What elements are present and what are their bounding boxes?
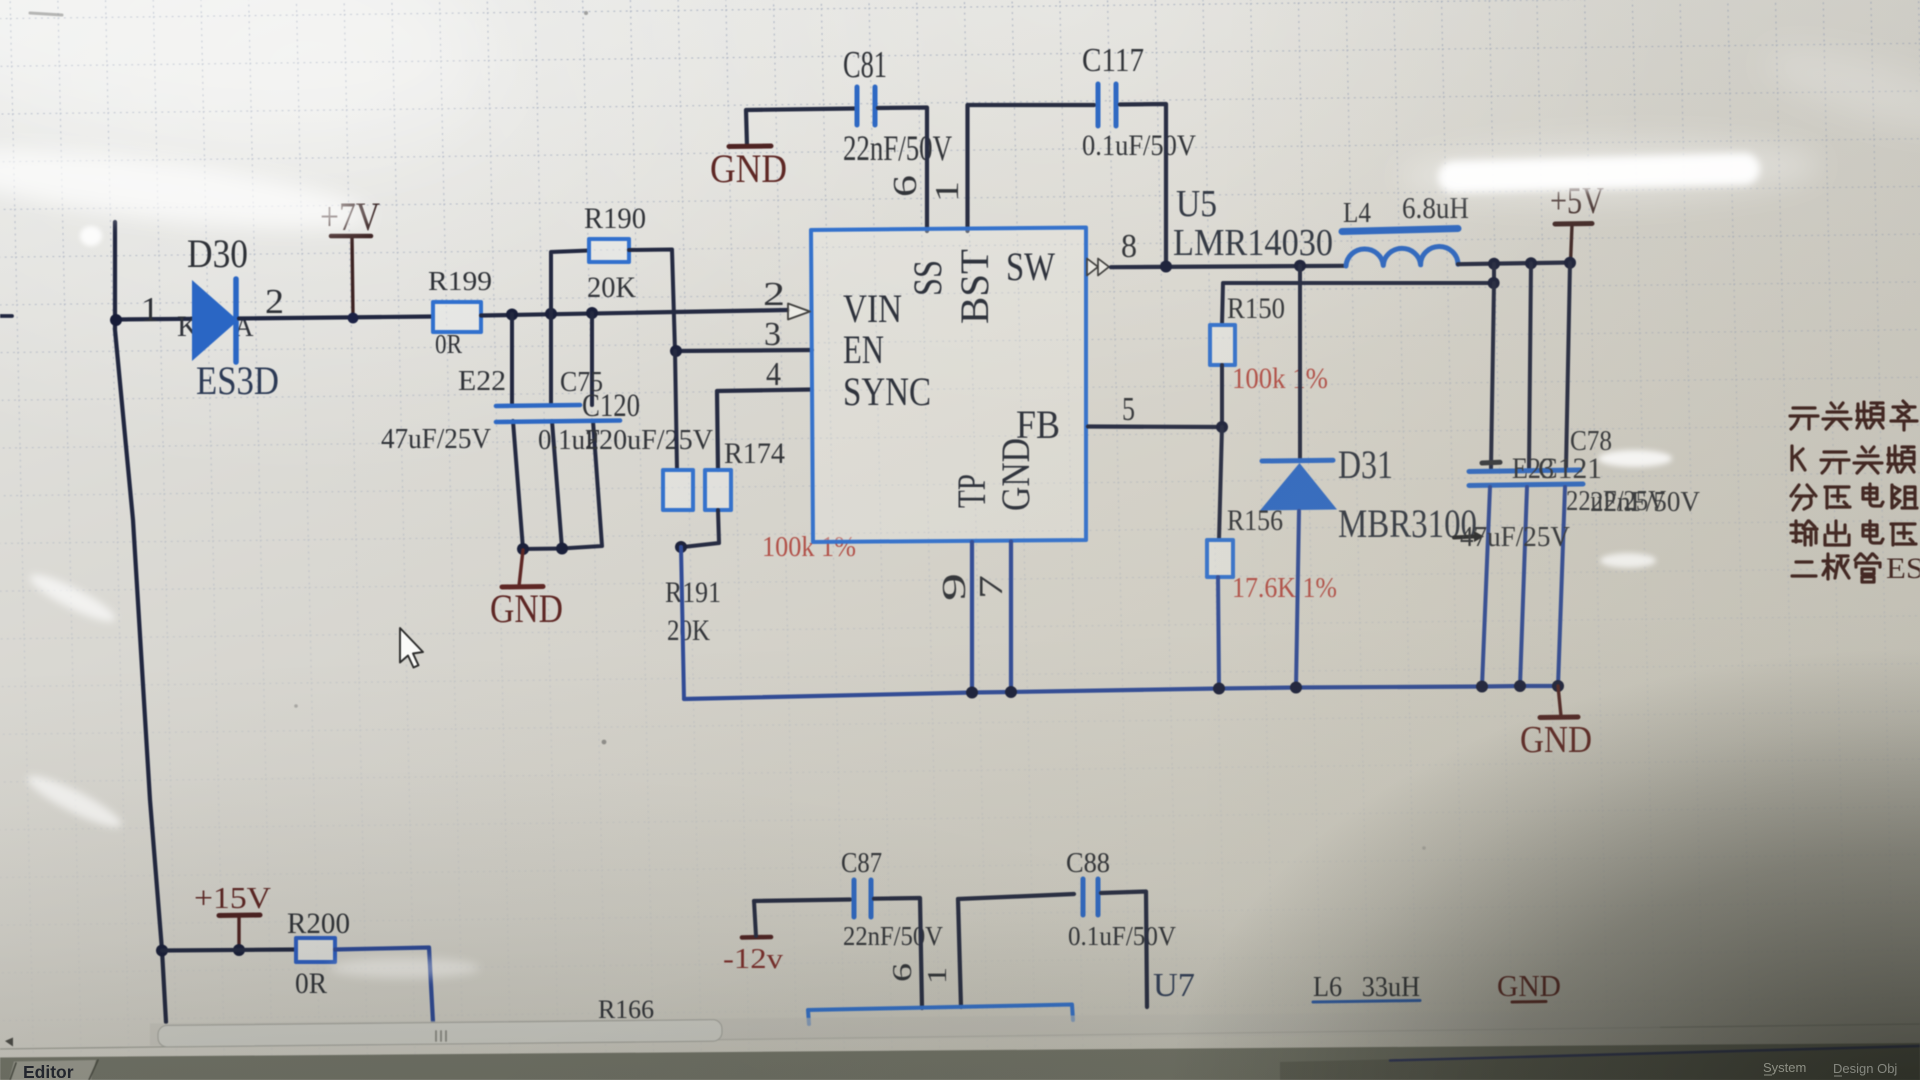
glare bottom-left streak1 bbox=[26, 568, 120, 629]
pin SW chevrons bbox=[1087, 259, 1109, 276]
ground GND bottom right bbox=[1540, 686, 1578, 718]
node D31 rail bbox=[1290, 682, 1302, 694]
wire R190 right to EN node bbox=[629, 250, 675, 352]
svg-text:System: System bbox=[1763, 1060, 1806, 1075]
wire E22 lower lead bbox=[513, 421, 523, 549]
glare bottom-left streak2 bbox=[23, 768, 126, 834]
node E23 tap bbox=[1488, 258, 1500, 270]
node R150 feed corner bbox=[1488, 277, 1500, 289]
wire SYNC pin4 bbox=[717, 390, 812, 471]
wire E23 lower lead bbox=[1482, 487, 1490, 687]
wire -12v to C87 bbox=[754, 900, 850, 902]
tab editor slants bbox=[10, 1060, 98, 1080]
wire E23 upper lead bbox=[1491, 283, 1494, 468]
glare mid-right blob2 bbox=[1600, 553, 1656, 568]
wire EN pin3 bbox=[675, 350, 812, 351]
node C120 tap bbox=[586, 307, 598, 319]
wire C81 left with ground bbox=[746, 109, 854, 147]
capacitor C87 bbox=[854, 880, 871, 917]
wire E22 upper lead bbox=[510, 314, 514, 405]
node gnd rail left bbox=[517, 543, 529, 555]
wire R200 to R166 bbox=[335, 948, 433, 1023]
wire C120 upper lead bbox=[590, 313, 594, 405]
wire C121 lower lead bbox=[1520, 487, 1527, 686]
wire R150 top feed bbox=[1222, 264, 1494, 325]
wire C75 lower lead bbox=[552, 421, 562, 549]
op-amp U1 ic U5 body bbox=[811, 228, 1086, 543]
inductor L4 bbox=[1342, 229, 1458, 267]
note chinese annotation column bbox=[1790, 401, 1920, 585]
node +15V rail corner bbox=[156, 945, 168, 957]
node C78 +5V tap bbox=[1564, 257, 1576, 269]
wire SW output bbox=[1111, 266, 1346, 267]
node C75 tap bbox=[545, 308, 557, 320]
node pin9 rail bbox=[966, 687, 978, 699]
ground GND top bbox=[729, 144, 771, 150]
resistor R199 bbox=[433, 302, 481, 332]
power +15V bbox=[219, 915, 260, 950]
pin VIN arrow bbox=[788, 304, 810, 320]
scrollbar left arrow bbox=[5, 1038, 13, 1047]
capacitor E22 plates bbox=[496, 405, 620, 422]
cursor mouse arrow bbox=[400, 628, 423, 668]
resistor R200 bbox=[296, 938, 335, 962]
node gnd rail mid bbox=[556, 543, 568, 555]
wire C75 upper lead bbox=[549, 314, 553, 405]
node E22 tap bbox=[506, 309, 518, 321]
wire U7 pin1 to C88 bbox=[958, 894, 1074, 1007]
wire R156 to rail bbox=[1218, 577, 1219, 689]
tab editor body bbox=[9, 1060, 96, 1080]
node SW C117 bbox=[1160, 261, 1172, 273]
wire C78 upper lead bbox=[1566, 263, 1570, 468]
capacitor C117 bbox=[1098, 84, 1116, 126]
ground GND left bbox=[502, 550, 543, 587]
node R156 rail bbox=[1213, 683, 1225, 695]
power +5V bbox=[1555, 224, 1592, 264]
ground GND bottom mid bar bbox=[1512, 1000, 1546, 1004]
wire R190 branch bbox=[551, 251, 589, 314]
wire R199 to VIN pin2 arrow bbox=[481, 310, 788, 316]
node pin7 rail bbox=[1005, 686, 1017, 698]
wire R191 top bbox=[675, 351, 677, 470]
wire R191 to bottom rail bbox=[681, 547, 684, 699]
wire D30 cathode to R199 bbox=[239, 317, 433, 319]
wire pin1 to C117 bbox=[968, 105, 1095, 231]
wire C117 right to SW bbox=[1120, 104, 1166, 266]
glare scrollbar blob bbox=[330, 958, 480, 978]
capacitor E23 plus mark bbox=[1454, 537, 1474, 538]
node E23 rail bbox=[1476, 681, 1488, 693]
status bar darker right bbox=[1280, 1047, 1920, 1080]
wire C78 lower lead bbox=[1558, 487, 1565, 686]
glare top-left drop bbox=[80, 226, 102, 246]
speck dust3 bbox=[1422, 846, 1426, 850]
node C121 rail bbox=[1514, 680, 1526, 692]
speck dust2 bbox=[294, 704, 298, 708]
svg-text:Design Obj: Design Obj bbox=[1833, 1061, 1897, 1076]
node SW D31 bbox=[1294, 260, 1306, 272]
node C78 rail bbox=[1552, 680, 1564, 692]
capacitor E23 polarity mark bbox=[1482, 460, 1500, 466]
note line3 fen ya dian zu bbox=[1791, 485, 1816, 510]
wire GND pin7 bbox=[1009, 542, 1013, 693]
wire FB to R156 bbox=[1219, 427, 1222, 540]
wire ground rail under caps bbox=[523, 547, 562, 552]
note line5 er ji guan ES bbox=[1792, 562, 1816, 576]
diode D30 bbox=[192, 279, 238, 362]
node +7V tap bbox=[348, 313, 359, 324]
node EN junction bbox=[670, 345, 682, 357]
resistor R156 bbox=[1207, 540, 1233, 577]
note line1 kai guan pin lv bbox=[1790, 408, 1818, 429]
svg-text:Editor: Editor bbox=[23, 1062, 74, 1080]
note line4 shu chu dian ya bbox=[1791, 521, 1817, 545]
resistor R174 bbox=[705, 470, 731, 510]
capacitor C81 bbox=[857, 87, 875, 125]
capacitor C88 bbox=[1083, 879, 1098, 915]
power +7V bbox=[331, 236, 371, 317]
wire R150 to FB bbox=[1220, 365, 1224, 427]
node C121 tap bbox=[1525, 257, 1537, 269]
diode D31 bbox=[1260, 460, 1337, 510]
wire +15V rail bbox=[162, 950, 296, 951]
power -12v bbox=[742, 901, 771, 938]
resistor R150 bbox=[1210, 325, 1235, 365]
wire D31 cathode lead bbox=[1298, 266, 1302, 460]
capacitor E23 C121 C78 plates bbox=[1469, 470, 1583, 486]
node input junction bbox=[110, 314, 122, 326]
status bar strip bbox=[0, 1043, 1920, 1080]
speck top dot bbox=[584, 11, 588, 15]
wire C81 right to pin6 bbox=[878, 108, 927, 232]
wire FB pin5 bbox=[1088, 424, 1222, 429]
wire C121 upper lead bbox=[1529, 263, 1531, 468]
wire C120 lower lead bbox=[562, 421, 602, 549]
scrollbar grip bbox=[436, 1031, 446, 1041]
wire R174 bottom bbox=[683, 510, 719, 547]
wire L4 to +5V bbox=[1458, 263, 1571, 265]
wire C88 right to U7 SW bbox=[1101, 892, 1147, 1008]
node +15V tap bbox=[233, 944, 245, 956]
wire C87 right to U7 bbox=[874, 898, 922, 1008]
resistor R191 bbox=[663, 470, 693, 510]
wire D31 anode lead bbox=[1296, 511, 1299, 688]
wire left vertical rail bbox=[115, 222, 166, 1022]
node R191 R174 junction bbox=[675, 541, 687, 553]
glare top-right streak bbox=[1438, 153, 1761, 194]
op-amp U2 ic U7 body top edge bbox=[808, 1005, 1073, 1025]
resistor R190 bbox=[589, 239, 629, 262]
wire input net to D30 anode bbox=[115, 317, 193, 322]
note line2 k kai guan pin bbox=[1792, 446, 1805, 470]
inductor L6 bar bbox=[1313, 1001, 1420, 1003]
speck top-left dash bbox=[30, 13, 62, 15]
speck dust bbox=[602, 740, 607, 745]
scrollbar track bbox=[0, 1024, 1920, 1049]
wire TP pin9 bbox=[970, 542, 974, 693]
glare top-left band bbox=[0, 133, 372, 244]
scrollbar thumb bbox=[158, 1020, 722, 1047]
glare mid-right blob1 bbox=[1598, 450, 1672, 467]
wire ground bus bottom bbox=[684, 686, 1559, 699]
wire stub at left edge bbox=[0, 314, 12, 318]
node FB junction bbox=[1216, 421, 1228, 433]
status bar navy edge line bbox=[1390, 1046, 1920, 1061]
